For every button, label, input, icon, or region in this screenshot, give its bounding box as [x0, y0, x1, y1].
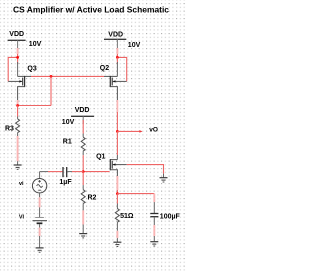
ground 100uF — [150, 242, 158, 246]
wire cap top lead (pink) — [153, 194, 155, 203]
svg-text:Q2: Q2 — [100, 65, 109, 72]
ground Q1 gate — [160, 178, 168, 182]
ground VI — [36, 248, 44, 252]
source VI (DC battery) — [33, 218, 48, 224]
wire cap bottom lead — [153, 217, 155, 225]
resistor R3 — [16, 106, 20, 137]
junction node Q2 drain — [116, 56, 119, 59]
wire 51ohm to ground (pink) — [116, 231, 118, 238]
svg-text:100µF: 100µF — [160, 213, 181, 220]
junction node bias (R1/R2/C1/Q1) — [82, 170, 85, 173]
ground R2 — [79, 234, 87, 238]
ground 51ohm — [113, 242, 121, 246]
wire VDD left to Q3 drain (pink segment) — [17, 48, 19, 54]
wire vi to VI (pink) — [39, 197, 41, 207]
wire output node down to Q1 drain — [116, 131, 118, 155]
wire vi to cap — [48, 171, 63, 173]
power VDD middle — [71, 107, 94, 124]
transistor Q2 — [104, 62, 127, 100]
transistor Q1 — [110, 159, 126, 176]
junction node vO — [116, 130, 119, 133]
wire junction down — [50, 76, 52, 105]
svg-text:R3: R3 — [5, 126, 14, 133]
wire Q1 gate to ground — [127, 165, 164, 174]
wire Q3 gate to drain (diode connection) — [8, 57, 17, 81]
wire R3 to ground (pink) — [17, 136, 19, 161]
wire to Q3 source node — [18, 105, 51, 107]
svg-text:10V: 10V — [62, 119, 75, 126]
wire Q1 source to bypass cap — [117, 193, 154, 195]
transistor Q3 — [8, 62, 31, 100]
svg-text:vi: vi — [19, 181, 24, 187]
svg-text:1µF: 1µF — [59, 179, 72, 186]
svg-text:10V: 10V — [128, 42, 141, 49]
wire Q3 top to Q2 top — [31, 75, 104, 77]
source vi (AC) — [32, 172, 46, 198]
resistor 51 ohm — [115, 194, 119, 231]
junction node Q3 drain — [16, 56, 19, 59]
junction node Q1 source — [116, 192, 119, 195]
svg-text:VDD: VDD — [75, 107, 90, 114]
svg-text:R2: R2 — [88, 194, 97, 201]
wire Q2 gate loop — [117, 57, 126, 81]
svg-text:VDD: VDD — [108, 31, 123, 38]
svg-text:Q1: Q1 — [96, 153, 105, 160]
wire Q3 drain stub red — [17, 57, 19, 64]
ground R3 — [14, 165, 22, 169]
wire Q2 source to output node — [116, 100, 118, 112]
capacitor 1uF — [63, 167, 67, 177]
resistor R2 — [81, 172, 85, 211]
wire VDD middle to R1 — [82, 120, 84, 134]
wire R1 to bias node — [82, 151, 84, 155]
wire VI to ground (pink) — [39, 224, 41, 228]
resistor R1 — [81, 137, 85, 151]
wire Q1 source down (pink) — [116, 176, 118, 190]
power VDD right — [104, 31, 126, 48]
svg-text:Q3: Q3 — [27, 66, 36, 73]
wire R2 to ground (pink) — [82, 210, 84, 224]
wire Q2 drain stub — [116, 57, 118, 64]
svg-text:R1: R1 — [63, 138, 72, 145]
svg-text:51Ω: 51Ω — [120, 213, 134, 220]
junction node on top wire — [50, 75, 53, 78]
capacitor 100uF — [150, 214, 158, 217]
junction node Q3 source / R3 top — [16, 104, 19, 107]
wire Q3 source lead (pink) — [17, 100, 19, 106]
svg-text:vO: vO — [149, 127, 158, 134]
power VDD left — [8, 31, 26, 48]
svg-text:VI: VI — [19, 214, 25, 220]
svg-text:CS Amplifier w/ Active Load Sc: CS Amplifier w/ Active Load Schematic — [13, 5, 169, 15]
wire cap to bias node — [67, 171, 72, 173]
wire VDD right to Q2 (pink) — [116, 48, 118, 54]
wire vO stub with arrow — [117, 130, 140, 132]
svg-text:VDD: VDD — [9, 31, 24, 38]
svg-text:10V: 10V — [29, 41, 42, 48]
wire bias node to Q1 — [83, 171, 109, 173]
